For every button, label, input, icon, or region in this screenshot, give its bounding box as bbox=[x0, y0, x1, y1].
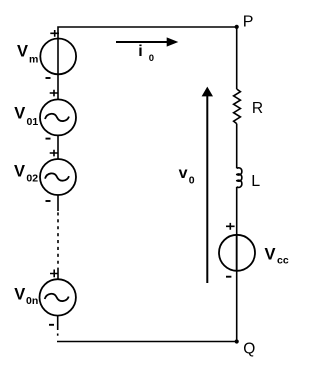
svg-text:P: P bbox=[243, 13, 254, 30]
svg-text:V: V bbox=[17, 42, 28, 60]
svg-text:V: V bbox=[265, 245, 276, 263]
svg-text:Q: Q bbox=[243, 340, 255, 357]
svg-text:V: V bbox=[14, 105, 25, 123]
svg-text:R: R bbox=[252, 100, 263, 117]
svg-text:i: i bbox=[138, 43, 142, 60]
svg-text:0: 0 bbox=[189, 175, 195, 187]
svg-text:cc: cc bbox=[277, 255, 289, 267]
svg-text:V: V bbox=[14, 285, 25, 303]
svg-text:0n: 0n bbox=[26, 295, 38, 307]
svg-text:m: m bbox=[29, 53, 38, 65]
svg-text:01: 01 bbox=[27, 116, 39, 128]
svg-text:0: 0 bbox=[149, 53, 154, 64]
svg-text:L: L bbox=[251, 173, 260, 190]
svg-text:v: v bbox=[179, 165, 188, 182]
svg-text:02: 02 bbox=[26, 173, 38, 185]
svg-text:V: V bbox=[14, 162, 25, 180]
